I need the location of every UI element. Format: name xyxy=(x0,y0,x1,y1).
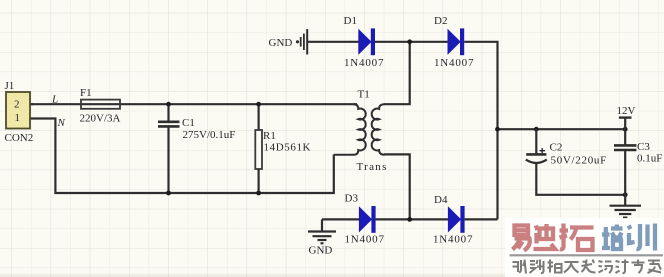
junction node C3 bottom / ground xyxy=(623,192,628,197)
junction node D3/D4 xyxy=(407,217,412,222)
watermark big glyph Xun (blue) xyxy=(629,224,656,251)
svg-text:1N4007: 1N4007 xyxy=(433,234,473,246)
primary winding xyxy=(334,104,366,155)
wire: bottom diode row from GND to D3 xyxy=(322,218,359,220)
junction node R1-top xyxy=(256,102,261,107)
svg-text:50V/220uF: 50V/220uF xyxy=(551,155,607,167)
ground symbol (output side) xyxy=(610,195,642,218)
svg-text:14D561K: 14D561K xyxy=(264,142,312,154)
svg-text:D3: D3 xyxy=(345,193,359,205)
wire: D4 cathode to right vertical bus xyxy=(465,218,498,220)
svg-text:F1: F1 xyxy=(80,87,92,99)
diode D2 xyxy=(434,15,474,69)
svg-text:CON2: CON2 xyxy=(5,132,34,144)
capacitor C3 xyxy=(614,129,662,195)
diode D1 xyxy=(344,15,385,69)
svg-text:T1: T1 xyxy=(358,89,370,101)
fuse F1 xyxy=(80,87,121,125)
transformer T1 xyxy=(334,89,388,174)
wire: D2 cathode to right vertical bus xyxy=(464,42,497,220)
junction node C1-top xyxy=(166,102,171,107)
svg-text:L: L xyxy=(51,94,58,106)
junction node 12V/C3 top xyxy=(623,127,628,132)
svg-text:0.1uF: 0.1uF xyxy=(637,153,662,165)
junction node R1-bottom xyxy=(256,191,261,196)
diode D3 xyxy=(345,193,385,246)
wire: D3 cathode to D3/D4 junction to D4 anode xyxy=(376,218,449,220)
wire: D1 cathode to D1/D2 junction xyxy=(375,41,448,43)
svg-text:1N4007: 1N4007 xyxy=(434,57,474,69)
junction node C1-bottom xyxy=(166,191,171,196)
capacitor C2 (polarized) xyxy=(526,129,607,166)
svg-text:12V: 12V xyxy=(617,105,636,117)
connector J1 xyxy=(5,80,34,144)
svg-text:220V/3A: 220V/3A xyxy=(80,113,121,125)
svg-text:C3: C3 xyxy=(637,141,650,153)
svg-text:Trans: Trans xyxy=(357,161,388,173)
junction node C2 top xyxy=(534,127,539,132)
power port 12V xyxy=(617,105,636,129)
junction node bus/output row xyxy=(495,127,500,132)
wire: L line from J1 pin2 through F1 to T1 primary top xyxy=(30,103,357,105)
svg-text:D4: D4 xyxy=(434,194,448,206)
wire: N line from J1 pin1 down and across bottom to T1 primary bottom xyxy=(30,119,334,194)
wire: T1 secondary bottom lead to D3/D4 junction xyxy=(384,154,410,219)
watermark tagline glyphs xyxy=(513,260,662,274)
wire: C2 bottom to C3 bottom ground row xyxy=(536,164,625,195)
svg-text:C1: C1 xyxy=(182,117,195,129)
svg-text:2: 2 xyxy=(14,99,20,111)
diode D4 xyxy=(433,194,473,246)
capacitor C1 xyxy=(158,104,235,193)
svg-text:GND: GND xyxy=(269,37,293,49)
watermark logo background xyxy=(505,218,664,277)
svg-text:R1: R1 xyxy=(263,130,276,142)
wire: top diode row from GND port to D1 xyxy=(308,41,359,43)
svg-text:1: 1 xyxy=(15,112,21,124)
svg-text:C2: C2 xyxy=(550,142,563,154)
svg-text:N: N xyxy=(57,117,66,129)
watermark big glyph Yi (red) xyxy=(513,226,530,251)
secondary winding xyxy=(372,104,385,155)
svg-text:D1: D1 xyxy=(344,15,357,27)
wire: T1 secondary top lead to D1/D2 junction xyxy=(384,42,410,104)
svg-text:1N4007: 1N4007 xyxy=(344,57,384,69)
watermark big glyph Pei (blue) xyxy=(602,225,623,250)
svg-text:J1: J1 xyxy=(5,80,15,92)
power port GND (top, AC reference) xyxy=(269,29,308,54)
watermark big glyph Di (red) xyxy=(534,224,556,249)
svg-text:1N4007: 1N4007 xyxy=(345,234,385,246)
junction node D1/D2 xyxy=(407,39,412,44)
svg-text:275V/0.1uF: 275V/0.1uF xyxy=(183,129,236,141)
svg-text:GND: GND xyxy=(309,245,333,257)
varistor R1 xyxy=(255,104,311,193)
ground symbol (bottom left, AC side) xyxy=(308,219,336,256)
watermark big glyph Tuo (red) xyxy=(560,224,594,251)
watermark divider line xyxy=(510,254,664,256)
svg-text:D2: D2 xyxy=(434,15,447,27)
wire: output row from bus to 12V node xyxy=(498,128,626,130)
